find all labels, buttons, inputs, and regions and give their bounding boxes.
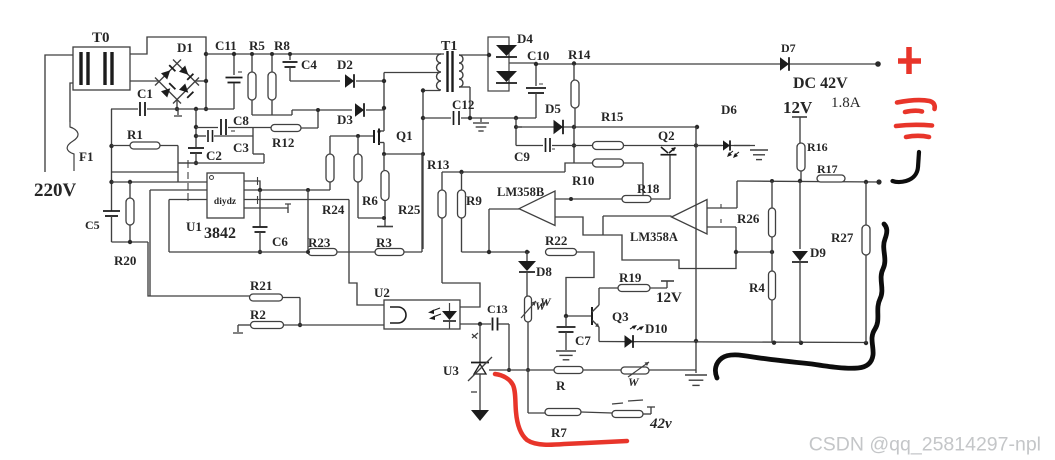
svg-text:D5: D5 [545,101,561,116]
svg-text:F1: F1 [79,149,93,164]
svg-text:T0: T0 [92,30,110,46]
svg-text:C13: C13 [487,302,508,316]
svg-text:U1: U1 [186,219,202,234]
svg-text:Q2: Q2 [658,128,675,143]
svg-text:D8: D8 [536,264,552,279]
svg-text:12V: 12V [783,98,813,117]
svg-text:R25: R25 [398,202,421,217]
svg-text:1.8A: 1.8A [831,95,861,111]
svg-text:R2: R2 [250,307,266,322]
svg-text:R27: R27 [831,230,854,245]
svg-text:R18: R18 [637,181,660,196]
svg-text:3842: 3842 [204,225,236,242]
svg-text:D1: D1 [177,40,193,55]
svg-text:U3: U3 [443,363,459,378]
svg-text:C12: C12 [452,97,474,112]
svg-text:C4: C4 [301,57,317,72]
svg-text:R5: R5 [249,38,265,53]
svg-text:R19: R19 [619,270,642,285]
svg-text:R20: R20 [114,253,136,268]
svg-text:R15: R15 [601,109,624,124]
svg-text:C10: C10 [527,48,549,63]
svg-text:R: R [556,378,566,393]
svg-text:220V: 220V [34,180,77,201]
svg-text:C2: C2 [206,148,222,163]
svg-text:R23: R23 [308,235,331,250]
svg-text:T1: T1 [441,39,457,54]
svg-text:CSDN @qq_25814297-npl: CSDN @qq_25814297-npl [809,434,1041,456]
svg-text:Q3: Q3 [612,309,629,324]
svg-text:Q1: Q1 [396,128,413,143]
svg-text:LM358A: LM358A [630,230,678,244]
svg-text:R14: R14 [568,47,591,62]
svg-text:D6: D6 [721,102,737,117]
svg-text:D4: D4 [517,31,533,46]
svg-text:R10: R10 [572,173,594,188]
svg-text:R3: R3 [376,235,392,250]
svg-text:R21: R21 [250,278,272,293]
svg-text:D10: D10 [645,321,667,336]
svg-text:diydz: diydz [214,197,237,207]
svg-text:LM358B: LM358B [497,185,544,199]
svg-text:C6: C6 [272,234,288,249]
svg-text:R4: R4 [749,280,765,295]
svg-text:R6: R6 [362,193,378,208]
svg-text:R17: R17 [817,162,838,176]
svg-text:12V: 12V [656,290,682,306]
svg-text:D3: D3 [337,112,353,127]
svg-text:D2: D2 [337,57,353,72]
svg-text:R26: R26 [737,211,760,226]
svg-text:R7: R7 [551,425,567,440]
svg-text:W: W [540,295,552,309]
svg-text:C3: C3 [233,140,249,155]
svg-text:C1: C1 [137,86,153,101]
svg-text:42v: 42v [649,416,672,432]
svg-text:C7: C7 [575,333,591,348]
svg-text:R8: R8 [274,38,290,53]
svg-text:R16: R16 [807,140,828,154]
svg-text:C9: C9 [514,149,530,164]
svg-text:R13: R13 [427,157,450,172]
svg-text:DC 42V: DC 42V [793,75,848,92]
svg-text:D7: D7 [781,41,796,55]
svg-text:R12: R12 [272,135,294,150]
svg-text:U2: U2 [374,285,390,300]
svg-text:R22: R22 [545,233,567,248]
svg-text:C11: C11 [215,38,237,53]
svg-text:W: W [628,375,640,389]
svg-text:D9: D9 [810,245,826,260]
svg-text:C5: C5 [85,218,100,232]
svg-text:R1: R1 [127,127,143,142]
svg-text:C8: C8 [233,113,249,128]
svg-text:R9: R9 [466,193,482,208]
svg-text:R24: R24 [322,202,345,217]
